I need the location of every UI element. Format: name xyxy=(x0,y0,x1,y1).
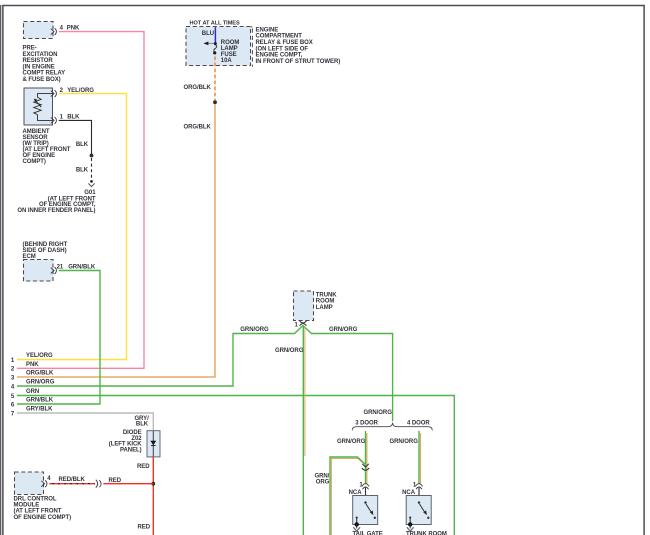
diode symbol xyxy=(150,431,156,457)
svg-text:1: 1 xyxy=(295,322,299,328)
connector terminal 7 label GRY/BLK xyxy=(11,407,53,418)
svg-text:YEL/ORG: YEL/ORG xyxy=(26,353,53,359)
pre-excitation resistor pin 4 connector xyxy=(51,28,57,35)
svg-text:GRN/ORG: GRN/ORG xyxy=(240,327,269,333)
label BLK (lower) xyxy=(76,168,89,174)
connector terminal 3 label ORG/BLK xyxy=(11,371,54,382)
svg-text:RESISTOR: RESISTOR xyxy=(23,58,54,64)
thermistor symbol inside ambient sensor xyxy=(34,94,53,121)
connector terminal 4 label GRN/ORG xyxy=(11,380,55,391)
in-line connector on RED wire xyxy=(96,480,101,488)
wire GRN/ORG right branch from lamp pin to 3door/4door split xyxy=(303,326,393,422)
tail gate switch (box) xyxy=(353,496,378,525)
svg-text:BLK: BLK xyxy=(136,422,149,428)
ambient sensor caption xyxy=(23,129,71,165)
wire GRN/ORG left branch from lamp pin to connector wire 4 xyxy=(17,326,303,387)
pin label 4 PNK xyxy=(60,26,80,32)
svg-text:IN FRONT OF STRUT TOWER): IN FRONT OF STRUT TOWER) xyxy=(256,59,341,65)
svg-text:COMPT RELAY: COMPT RELAY xyxy=(23,71,66,77)
label BLK (upper) xyxy=(76,142,89,148)
ECM caption xyxy=(23,242,68,260)
diode Z02 (box) xyxy=(147,431,160,457)
svg-text:5: 5 xyxy=(11,394,15,400)
svg-text:COMPT): COMPT) xyxy=(23,159,46,165)
svg-text:RED/BLK: RED/BLK xyxy=(59,477,86,483)
svg-text:GRN/ORG: GRN/ORG xyxy=(329,327,358,333)
wire RED/BLK from DRL module pin 4 to in-line connector xyxy=(49,483,95,485)
dashed BLK wire segment to ground xyxy=(91,158,93,179)
svg-text:OF ENGINE COMPT): OF ENGINE COMPT) xyxy=(14,515,72,521)
svg-text:BLK: BLK xyxy=(67,115,80,121)
label ORG/BLK (upper) xyxy=(183,85,211,91)
svg-text:3: 3 xyxy=(11,375,15,381)
svg-text:GRN/ORG: GRN/ORG xyxy=(337,439,366,445)
dashed ORG/BLK wire from fuse to junction xyxy=(214,57,216,101)
DRL control module (dashed box) xyxy=(15,472,44,495)
svg-text:3 DOOR: 3 DOOR xyxy=(355,421,378,427)
tail gate switch caption xyxy=(353,531,383,535)
engine compartment relay and fuse box (dashed box) xyxy=(186,27,251,66)
pin label 2 YEL/ORG xyxy=(60,88,95,94)
DRL control module pin 4 connector xyxy=(41,480,47,487)
ECM pin 21 connector xyxy=(51,267,57,274)
junction on BLK wire xyxy=(90,154,94,158)
svg-text:ON INNER FENDER PANEL): ON INNER FENDER PANEL) xyxy=(17,208,95,214)
wire RED from in-line connector to junction xyxy=(103,483,153,485)
label RED (above junction) xyxy=(137,464,150,470)
wire GRN/ORG middle branch from lamp pin down off-page xyxy=(303,326,305,535)
svg-text:(ON LEFT SIDE OF: (ON LEFT SIDE OF xyxy=(256,46,309,52)
svg-text:& FUSE BOX): & FUSE BOX) xyxy=(23,77,61,83)
wire BLK from ambient sensor pin 1 to ground G01 xyxy=(59,120,92,155)
label GRN/ORG (middle branch) xyxy=(275,348,304,354)
svg-text:GRN/BLK: GRN/BLK xyxy=(26,398,54,404)
label RED xyxy=(109,478,122,484)
trunk room switch pin 1 connector xyxy=(415,484,422,490)
svg-text:ENGINE: ENGINE xyxy=(256,27,279,33)
svg-text:(IN ENGINE: (IN ENGINE xyxy=(23,64,55,70)
wire GRN/ORG from off-page joining 3-door branch xyxy=(330,457,366,535)
pin label 1 (trunk room switch) xyxy=(413,482,417,488)
svg-text:10A: 10A xyxy=(221,58,233,64)
svg-text:GRY/BLK: GRY/BLK xyxy=(26,407,53,413)
svg-text:RED: RED xyxy=(137,464,150,470)
svg-text:GRN/BLK: GRN/BLK xyxy=(68,265,96,271)
fuse: room lamp fuse 10A xyxy=(203,42,216,55)
svg-text:GRN/ORG: GRN/ORG xyxy=(390,439,419,445)
svg-text:LAMP: LAMP xyxy=(316,305,333,311)
ground G01 caption xyxy=(17,190,96,214)
label ROOM LAMP FUSE 10A xyxy=(221,40,240,64)
label GRN/ORG (4-door branch) xyxy=(390,439,419,445)
svg-text:PANEL): PANEL) xyxy=(120,447,142,453)
DRL control module caption xyxy=(14,497,72,521)
diode Z02 caption xyxy=(109,430,143,453)
pin label 21 GRN/BLK xyxy=(57,265,96,271)
svg-text:7: 7 xyxy=(11,411,15,417)
engine compartment relay and fuse box caption xyxy=(256,27,341,65)
wire RED from diode down off-page xyxy=(152,457,154,535)
svg-text:BLU: BLU xyxy=(202,31,214,37)
svg-text:21: 21 xyxy=(57,265,64,271)
wire GRN/BLK from ECM pin 21 to connector wire 6 xyxy=(17,271,100,405)
svg-text:GRN/ORG: GRN/ORG xyxy=(364,410,393,416)
label 4 DOOR xyxy=(407,421,430,427)
pre-excitation resistor caption xyxy=(23,46,66,83)
wire BLU battery feed inside fuse box xyxy=(214,27,216,43)
pin label 1 BLK xyxy=(60,115,80,121)
label GRN/ORG above split xyxy=(364,410,393,416)
ambient sensor pin 2 connector xyxy=(51,90,57,97)
ground symbol below tail gate switch xyxy=(353,522,360,531)
svg-text:ROOM: ROOM xyxy=(316,299,335,305)
pin label 4 RED/BLK xyxy=(47,476,85,483)
ground G01 symbol xyxy=(88,180,94,187)
svg-text:4 DOOR: 4 DOOR xyxy=(407,421,430,427)
svg-text:TRUNK ROOM: TRUNK ROOM xyxy=(406,531,447,535)
label ORG/BLK (lower) xyxy=(183,124,211,130)
svg-text:2: 2 xyxy=(11,367,15,373)
wire ORG/BLK from junction down to connector wire 3 xyxy=(17,104,215,377)
label GRN/ ORG (joining wire) xyxy=(314,473,329,485)
svg-text:TRUNK: TRUNK xyxy=(316,292,337,298)
svg-text:4: 4 xyxy=(60,26,64,32)
connector terminal 6 label GRN/BLK xyxy=(11,398,54,409)
wire PNK from pre-excitation resistor pin 4 down to connector wire 2 xyxy=(17,32,144,369)
split bracket 3 door / 4 door xyxy=(352,423,432,431)
wire GRN/ORG 4-door branch down to trunk room switch pin xyxy=(419,431,420,484)
svg-text:NCA: NCA xyxy=(349,490,363,496)
pin label 1 (tail gate switch) xyxy=(359,482,363,488)
wire 5 GRN from connector terminal 5 to right side and down off-page xyxy=(17,396,454,535)
svg-text:RELAY & FUSE BOX: RELAY & FUSE BOX xyxy=(256,40,313,46)
svg-text:SIDE OF DASH): SIDE OF DASH) xyxy=(23,248,67,254)
connector terminal 1 label YEL/ORG xyxy=(11,353,53,364)
wire YEL/ORG from ambient sensor pin 2 down to connector wire 1 xyxy=(17,94,127,360)
connector terminal 5 label GRN xyxy=(11,389,39,400)
label GRY/BLK at corner xyxy=(134,416,149,428)
svg-text:ENGINE COMPT,: ENGINE COMPT, xyxy=(256,53,303,59)
svg-text:ORG/BLK: ORG/BLK xyxy=(183,85,211,91)
ambient sensor (box) xyxy=(24,88,53,125)
svg-text:ORG: ORG xyxy=(316,480,330,486)
wire GRN/ORG 3-door branch down to tail gate switch pin xyxy=(366,431,367,484)
svg-text:PNK: PNK xyxy=(67,26,80,32)
label 3 DOOR xyxy=(355,421,378,427)
svg-text:4: 4 xyxy=(47,476,51,482)
svg-text:BLK: BLK xyxy=(76,142,89,148)
svg-text:GRN: GRN xyxy=(26,389,39,395)
svg-text:TAIL GATE: TAIL GATE xyxy=(353,531,383,535)
trunk room switch contacts xyxy=(409,501,429,524)
svg-text:COMPARTMENT: COMPARTMENT xyxy=(256,34,303,40)
label RED (below junction) xyxy=(137,524,150,530)
trunk room switch caption xyxy=(406,531,447,535)
svg-text:6: 6 xyxy=(11,402,15,408)
svg-text:GRN/ORG: GRN/ORG xyxy=(275,348,304,354)
pre-excitation resistor (dashed box) xyxy=(24,22,54,39)
trunk room lamp pin 1 connector xyxy=(300,321,307,326)
svg-text:4: 4 xyxy=(11,384,15,390)
svg-text:PNK: PNK xyxy=(26,362,39,368)
svg-text:G01: G01 xyxy=(84,190,96,196)
tail gate switch pin 1 connector xyxy=(362,484,369,490)
junction on ORG/BLK wire xyxy=(213,100,217,104)
ground symbol below trunk room switch xyxy=(407,522,414,531)
trunk room switch (box) xyxy=(406,496,431,525)
label GRN/ORG (right branch) xyxy=(329,327,358,333)
svg-text:1: 1 xyxy=(11,358,15,364)
svg-text:GRN/: GRN/ xyxy=(314,473,329,479)
wire 7 GRY/BLK from connector terminal 7 to diode Z02 xyxy=(17,413,153,431)
trunk room lamp caption xyxy=(316,292,337,311)
svg-text:NCA: NCA xyxy=(402,490,416,496)
caption bracket for fuse box name xyxy=(251,27,253,67)
ECM (dashed box) xyxy=(24,260,54,282)
label HOT AT ALL TIMES xyxy=(190,21,240,27)
label GRN/ORG (left branch) xyxy=(240,327,269,333)
svg-text:ORG/BLK: ORG/BLK xyxy=(183,124,211,130)
svg-text:EXCITATION: EXCITATION xyxy=(23,52,58,58)
svg-text:ORG/BLK: ORG/BLK xyxy=(26,371,54,377)
trunk room lamp (dashed box) xyxy=(294,291,314,321)
svg-text:PRE-: PRE- xyxy=(23,46,37,52)
tail gate switch contacts xyxy=(356,501,376,524)
in-line connector on 3-door branch xyxy=(362,464,369,470)
label NCA (trunk room switch) xyxy=(402,490,416,496)
svg-text:HOT AT ALL TIMES: HOT AT ALL TIMES xyxy=(190,21,240,27)
svg-text:1: 1 xyxy=(60,115,64,121)
label GRN/ORG (3-door branch) xyxy=(337,439,366,445)
svg-text:(BEHIND RIGHT: (BEHIND RIGHT xyxy=(23,242,68,248)
connector terminal 2 label PNK xyxy=(11,362,39,373)
svg-text:BLK: BLK xyxy=(76,168,89,174)
ambient sensor pin 1 connector xyxy=(51,117,57,124)
junction on RED wire xyxy=(151,482,155,486)
svg-text:RED: RED xyxy=(137,524,150,530)
label BLU xyxy=(202,31,214,37)
wire stem into tail gate switch xyxy=(365,488,367,502)
svg-text:GRN/ORG: GRN/ORG xyxy=(26,380,55,386)
pin label 1 (trunk room lamp) xyxy=(295,322,299,328)
label NCA (tail gate switch) xyxy=(349,490,363,496)
wire stem into trunk room switch xyxy=(418,488,420,502)
